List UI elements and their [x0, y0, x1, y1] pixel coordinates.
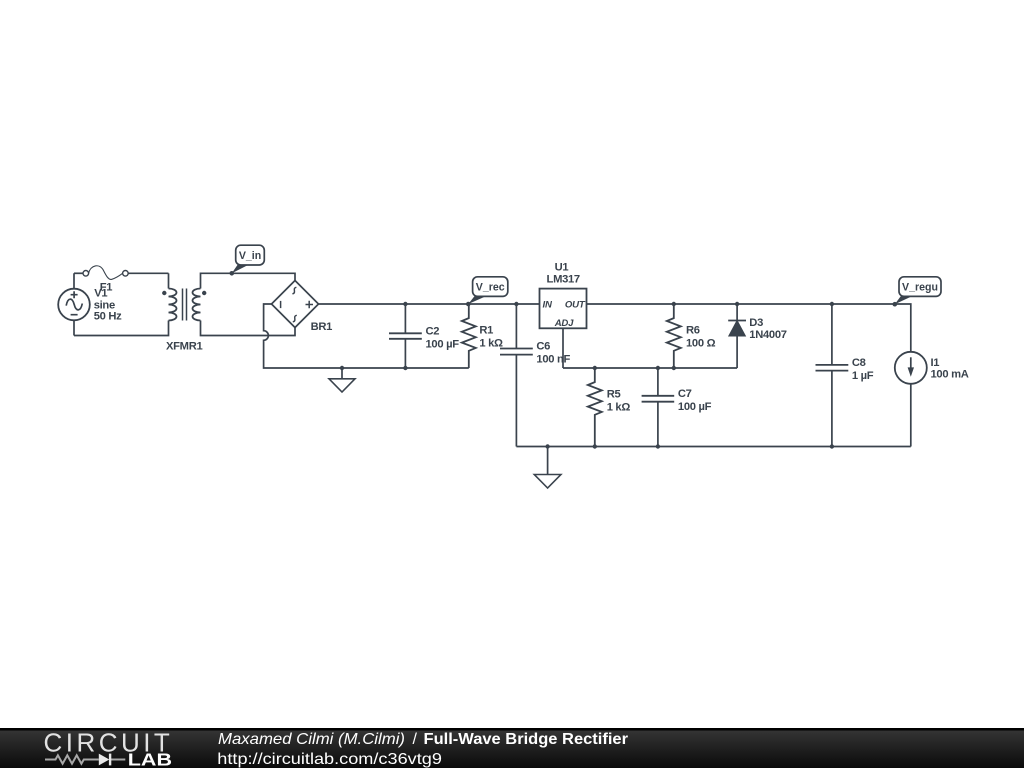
svg-text:100 nF: 100 nF [536, 354, 570, 366]
label D3 1N4007 [749, 317, 786, 341]
svg-text:V_in: V_in [239, 250, 261, 262]
svg-text:R5: R5 [607, 389, 621, 401]
svg-text:V_regu: V_regu [902, 281, 938, 293]
svg-text:C7: C7 [678, 388, 692, 400]
label I1 100mA [931, 357, 969, 380]
label C6 100nF [536, 341, 570, 366]
svg-text:U1: U1 [555, 262, 569, 274]
svg-text:C8: C8 [852, 357, 866, 369]
svg-text:1 kΩ: 1 kΩ [479, 337, 503, 349]
wire top rail (bridge to U1) [319, 303, 540, 305]
op-amp U1 LM317 box [540, 289, 587, 329]
label R6 100Ohm [686, 325, 716, 350]
label R5 1kOhm [607, 389, 631, 414]
label C7 100uF [678, 388, 712, 413]
svg-text:LAB: LAB [128, 750, 172, 768]
label U1 LM317 [547, 262, 580, 286]
svg-text:sine: sine [94, 299, 115, 311]
svg-text:1N4007: 1N4007 [749, 329, 786, 341]
transformer XFMR1 [162, 289, 206, 321]
svg-text:http://circuitlab.com/c36vtg9: http://circuitlab.com/c36vtg9 [217, 751, 442, 768]
svg-text:100 Ω: 100 Ω [686, 337, 716, 349]
label R1 1kOhm [479, 325, 503, 350]
svg-text:R1: R1 [479, 325, 493, 337]
label C2 100uF [426, 326, 460, 351]
node flag V_regu [893, 277, 942, 307]
svg-text:C2: C2 [426, 326, 440, 338]
logo resistor-diode [45, 755, 125, 763]
svg-text:50 Hz: 50 Hz [94, 311, 122, 323]
capacitor C8 [816, 304, 849, 447]
svg-text:OUT: OUT [565, 300, 586, 311]
svg-text:100 mA: 100 mA [931, 369, 969, 381]
wire bridge left to lower rail with hop [264, 304, 469, 368]
capacitor C7 [642, 368, 675, 447]
svg-text:Full-Wave Bridge Rectifier: Full-Wave Bridge Rectifier [424, 731, 629, 748]
capacitor C2 [389, 304, 422, 368]
ground (stage 2) [534, 447, 561, 489]
fuse F1 [74, 266, 169, 280]
ground (stage 1) [329, 368, 355, 392]
svg-text:C6: C6 [536, 341, 550, 353]
svg-text:R6: R6 [686, 325, 700, 337]
svg-text:F1: F1 [100, 282, 113, 294]
bridge rectifier BR1 [272, 281, 319, 328]
wire secondary bottom [201, 321, 296, 336]
wire top rail (U1 to I1) [587, 304, 911, 352]
svg-text:BR1: BR1 [311, 321, 333, 333]
svg-text:ADJ: ADJ [554, 318, 574, 329]
footer bar [0, 728, 1024, 768]
wire secondary top [201, 273, 296, 288]
capacitor C6 [500, 304, 533, 447]
svg-text:LM317: LM317 [547, 274, 580, 286]
node flag V_rec [466, 277, 508, 307]
label C8 1uF [852, 357, 874, 382]
wire primary top [168, 273, 170, 288]
svg-text:D3: D3 [749, 317, 763, 329]
node flag V_in [230, 245, 265, 275]
wire bottom rail [516, 446, 910, 448]
svg-text:/: / [413, 731, 418, 748]
svg-text:100 µF: 100 µF [426, 338, 460, 350]
svg-text:XFMR1: XFMR1 [166, 340, 202, 352]
diode D3 [728, 304, 746, 368]
svg-text:V_rec: V_rec [476, 281, 505, 293]
resistor R5 [588, 368, 602, 447]
resistor R1 [462, 304, 476, 368]
voltage source V1 [58, 273, 90, 335]
resistor R6 [667, 304, 681, 368]
wire primary bottom [74, 321, 169, 336]
svg-text:Maxamed Cilmi (M.Cilmi): Maxamed Cilmi (M.Cilmi) [218, 731, 405, 748]
svg-text:100 µF: 100 µF [678, 401, 712, 413]
svg-text:1 µF: 1 µF [852, 370, 874, 382]
svg-text:1 kΩ: 1 kΩ [607, 401, 631, 413]
wire ADJ rail [563, 367, 737, 369]
svg-text:IN: IN [543, 300, 553, 311]
label V1 sine 50 Hz [94, 287, 122, 322]
svg-text:I1: I1 [931, 357, 940, 369]
wire ADJ pin [562, 328, 564, 368]
junction dots [340, 302, 834, 449]
current source I1 [895, 352, 927, 447]
